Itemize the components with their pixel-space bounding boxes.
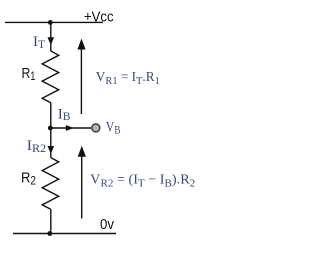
voltage arrow VR2 (pointing up)	[81, 157, 83, 219]
wire from R1 to node B	[50, 103, 52, 128]
wire from +Vcc rail down to resistor R1	[50, 22, 52, 51]
node B junction	[48, 126, 53, 131]
voltage arrow VR1 (pointing up)	[80, 49, 82, 115]
svg-text:VB: VB	[106, 119, 121, 136]
svg-text:VR1 = IT.R1: VR1 = IT.R1	[96, 70, 160, 87]
wire from node B down to resistor R2	[50, 128, 52, 158]
resistor R1	[42, 51, 59, 103]
svg-text:IR2: IR2	[27, 138, 47, 155]
terminal VB (output pin)	[92, 124, 100, 132]
svg-text:R1: R1	[22, 65, 36, 83]
wire: +Vcc supply rail	[5, 21, 103, 23]
node: junction on +Vcc rail	[48, 20, 53, 25]
current arrow IB (arrowhead pointing right)	[66, 125, 74, 131]
node: junction on 0v rail	[47, 231, 52, 236]
resistor R2	[42, 158, 59, 210]
svg-text:IB: IB	[58, 106, 71, 123]
svg-text:VR2 = (IT − IB).R2: VR2 = (IT − IB).R2	[90, 173, 195, 190]
current arrow IT (arrowhead pointing down)	[48, 37, 55, 45]
svg-text:R2: R2	[21, 170, 36, 188]
svg-text:0v: 0v	[100, 216, 114, 233]
current arrow IR2 (arrowhead pointing down)	[48, 146, 55, 154]
wire from node B to VB terminal	[50, 127, 91, 129]
wire from R2 to 0v rail	[50, 209, 52, 233]
wire: 0v ground rail	[13, 233, 116, 235]
svg-text:+Vcc: +Vcc	[84, 8, 114, 25]
svg-text:IT: IT	[33, 34, 45, 51]
